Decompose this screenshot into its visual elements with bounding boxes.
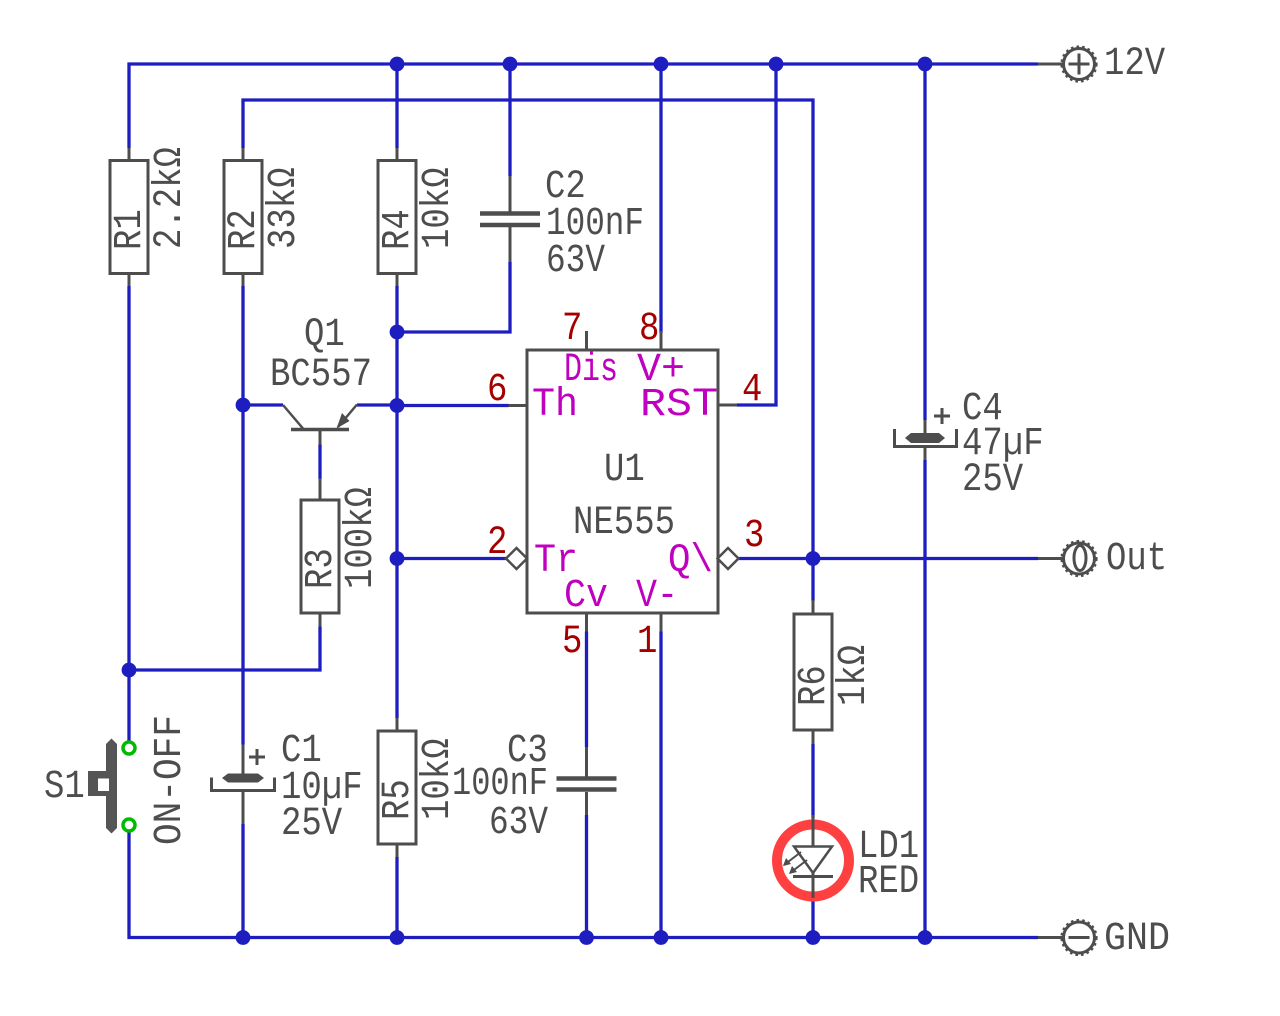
svg-text:5: 5	[562, 620, 582, 665]
pin 5 Cv	[562, 574, 608, 665]
svg-text:GND: GND	[1104, 917, 1170, 962]
resistor R4	[376, 148, 461, 286]
resistor R6	[792, 600, 877, 744]
wire C3 bottom to GND rail	[585, 815, 588, 938]
pin 6 Th	[487, 368, 578, 428]
svg-text:8: 8	[639, 307, 659, 352]
wire R5 bottom to GND rail	[395, 857, 398, 938]
node RST top rail	[769, 57, 784, 72]
wire second rail R2-top to Q output net	[243, 100, 813, 557]
LED LD1	[777, 815, 919, 905]
node Q output	[806, 551, 821, 566]
svg-text:12V: 12V	[1104, 42, 1165, 87]
svg-text:ON-OFF: ON-OFF	[148, 715, 193, 845]
svg-text:V-: V-	[636, 574, 678, 619]
svg-text:2.2kΩ: 2.2kΩ	[148, 147, 193, 249]
node pin8 top rail	[654, 57, 669, 72]
svg-text:R4: R4	[376, 209, 421, 250]
svg-text:R2: R2	[222, 209, 267, 250]
node Tr junction	[390, 551, 405, 566]
svg-text:RST: RST	[640, 383, 718, 428]
wire R4 bottom down through nodes to R5 top	[395, 286, 398, 718]
wire top rail 12V net	[129, 64, 1038, 148]
node C4 top rail	[918, 57, 933, 72]
svg-text:1kΩ: 1kΩ	[832, 645, 877, 706]
node R1 bottom	[122, 663, 137, 678]
capacitor C2	[480, 165, 644, 284]
wire R1 bottom to node and S1	[127, 286, 130, 741]
node junction dots	[122, 57, 933, 945]
svg-text:33kΩ: 33kΩ	[262, 167, 307, 249]
switch S1	[44, 715, 193, 845]
wire bottom GND rail	[129, 832, 1038, 938]
svg-text:7: 7	[562, 307, 582, 352]
svg-text:3: 3	[744, 514, 764, 559]
svg-text:R5: R5	[376, 779, 421, 820]
node Th junction	[390, 398, 405, 413]
svg-text:R3: R3	[299, 548, 344, 589]
svg-text:63V: 63V	[489, 801, 548, 846]
wire pin 4 RST up to 12V rail	[737, 64, 776, 405]
wire Q1 base to R3 top	[318, 445, 321, 479]
node GND terminal	[1038, 917, 1170, 962]
svg-text:R1: R1	[108, 209, 153, 250]
resistor R2	[222, 148, 307, 286]
node Q1 collector	[236, 398, 251, 413]
wire pin 5 Cv down to C3 top	[585, 632, 588, 748]
pin 4 RST	[640, 368, 762, 428]
pin 7 Dis	[562, 307, 618, 393]
svg-text:RED: RED	[858, 860, 919, 905]
wire C4 bottom to GND rail	[923, 460, 926, 938]
node C4 GND	[918, 930, 933, 945]
wire R6 bottom to LED top	[811, 744, 814, 818]
node 12V terminal	[1038, 42, 1165, 87]
svg-text:1: 1	[637, 620, 657, 665]
node LED GND	[806, 930, 821, 945]
node pin1 GND	[654, 930, 669, 945]
wire node to pin 2 Tr	[397, 557, 507, 560]
wire Q output node down to R6 top	[811, 559, 814, 602]
node C3 GND	[579, 930, 594, 945]
svg-text:100kΩ: 100kΩ	[339, 487, 384, 589]
svg-text:25V: 25V	[281, 802, 342, 847]
svg-text:Th: Th	[532, 383, 578, 428]
pin 8 V+	[637, 307, 685, 393]
pin 2 Tr	[487, 521, 578, 584]
wire C4 top to 12V rail	[923, 64, 926, 420]
wire node to pin 6 Th	[397, 404, 509, 407]
wire pin 3 Q out to Out terminal	[739, 557, 1039, 560]
svg-text:R6: R6	[792, 665, 837, 706]
svg-text:10kΩ: 10kΩ	[416, 167, 461, 249]
wire node670 horizontal to R3 bottom	[129, 627, 320, 671]
node Out terminal	[1038, 537, 1167, 582]
capacitor C3	[452, 729, 617, 846]
svg-text:4: 4	[742, 368, 762, 413]
svg-text:Cv: Cv	[564, 574, 608, 619]
svg-text:25V: 25V	[962, 458, 1023, 503]
svg-text:2: 2	[487, 521, 507, 566]
resistor R5	[376, 718, 461, 857]
wire Q1 collector from R2 column	[243, 403, 283, 406]
resistor R3	[299, 479, 384, 627]
wire C2 top to 12V rail	[508, 64, 511, 176]
svg-text:Q1: Q1	[304, 313, 345, 358]
wire R4 top to 12V rail	[395, 64, 398, 148]
node R5 GND	[390, 930, 405, 945]
svg-text:63V: 63V	[546, 239, 605, 284]
pin 1 V-	[636, 574, 678, 665]
resistor R1	[108, 147, 193, 286]
wire R2 bottom to C1 top	[241, 286, 244, 745]
svg-text:NE555: NE555	[573, 501, 675, 546]
wire Q1 emitter to node	[357, 403, 397, 406]
svg-text:S1: S1	[44, 765, 85, 810]
node C2 bottom	[390, 325, 405, 340]
node C1 GND	[236, 930, 251, 945]
node R4 top rail	[390, 57, 405, 72]
node C2 top rail	[503, 57, 518, 72]
transistor Q1	[270, 313, 372, 445]
op-amp U1 NE555	[527, 350, 718, 613]
wire LED bottom to GND rail	[811, 898, 814, 938]
svg-text:U1: U1	[604, 448, 645, 493]
wire pin 1 V- down to GND rail	[659, 632, 662, 938]
wire C1 bottom to GND rail	[241, 824, 244, 938]
svg-text:BC557: BC557	[270, 353, 372, 398]
svg-text:Out: Out	[1106, 537, 1167, 582]
wire pin 8 V+ up to 12V rail	[659, 64, 662, 333]
pin 3 Q out	[668, 514, 764, 584]
wire C2 bottom to node on R4 column	[397, 262, 510, 332]
capacitor C4	[895, 387, 1044, 503]
capacitor C1	[212, 729, 363, 847]
svg-text:6: 6	[487, 368, 507, 413]
